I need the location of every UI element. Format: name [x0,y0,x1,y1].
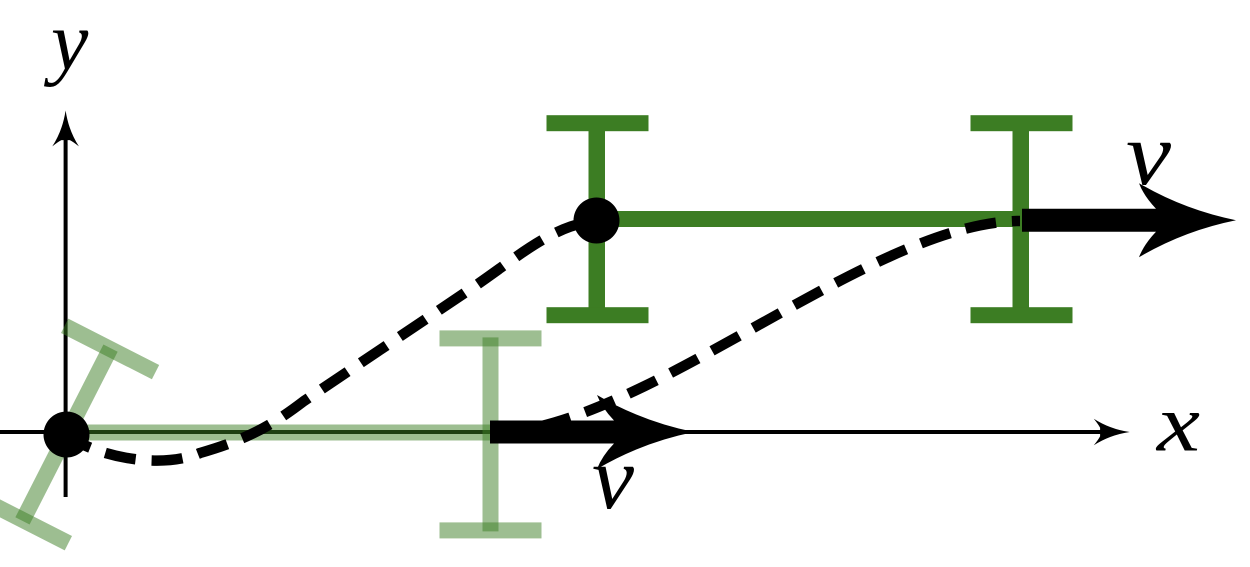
rear reference dot (origin) [44,412,90,458]
velocity arrow (lower) [490,395,694,469]
dark cart front wheel top cap [971,115,1073,131]
faded cart front wheel bottom cap [440,522,542,538]
dark cart rear wheel bar [589,122,606,316]
svg-text:y: y [43,0,89,88]
faded cart rear wheel (tilted) [0,319,159,551]
faded cart front wheel bar [483,337,499,531]
rear reference dot (later) [574,198,620,244]
dark cart rear wheel top cap [547,115,649,131]
dark cart rear wheel bottom cap [547,307,649,323]
faded cart (initial position) [0,319,542,551]
velocity arrow (upper) [1022,183,1236,257]
dark cart front wheel bottom cap [971,307,1073,323]
svg-text:v: v [1126,105,1171,204]
dark cart body rod [597,211,1021,227]
dark cart (later position) [547,115,1073,323]
dashed trajectory of rear point [67,221,597,461]
svg-text:v: v [592,429,634,528]
y-axis [52,111,79,498]
dark cart front wheel bar [1013,122,1030,316]
x-axis [0,419,1130,446]
dashed trajectory of front point [490,221,1020,433]
svg-text:x: x [1156,378,1200,469]
faded cart front wheel top cap [440,330,542,346]
faded cart body rod [66,425,491,441]
